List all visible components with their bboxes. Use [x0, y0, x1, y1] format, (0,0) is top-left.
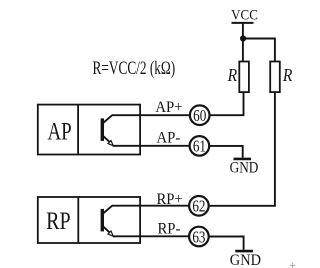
ground label GND (lower)	[230, 251, 261, 268]
pin 62 circle	[189, 196, 209, 216]
label RP+	[156, 190, 182, 208]
wire node to right resistor	[243, 39, 275, 62]
power label VCC	[231, 7, 258, 23]
svg-text:AP+: AP+	[155, 98, 182, 116]
wire AP- to pin 61	[113, 145, 189, 147]
transistor Q2 emitter arrowhead	[108, 231, 113, 236]
svg-text:VCC: VCC	[231, 7, 258, 23]
pin 63 circle	[189, 227, 209, 247]
ground bar (lower)	[235, 250, 253, 253]
svg-text:GND: GND	[230, 160, 259, 177]
wire pin 62 to right resistor	[210, 92, 275, 206]
svg-text:AP: AP	[47, 117, 71, 145]
label RP	[46, 207, 70, 235]
svg-text:GND: GND	[230, 251, 261, 268]
svg-text:RP: RP	[46, 207, 70, 235]
svg-text:R=VCC/2 (kΩ): R=VCC/2 (kΩ)	[93, 59, 176, 79]
transistor Q2 base bar	[101, 209, 104, 232]
svg-text:AP-: AP-	[157, 129, 181, 147]
label R right	[282, 65, 293, 85]
power symbol VCC bar	[232, 22, 254, 24]
label AP+	[155, 98, 182, 116]
block AP box	[38, 105, 140, 155]
svg-text:RP+: RP+	[156, 190, 182, 208]
ground bar (upper)	[234, 158, 252, 161]
node junction dot	[240, 35, 246, 41]
resistor R (right) body	[270, 62, 280, 93]
label AP-	[157, 129, 181, 147]
svg-text:R: R	[227, 65, 238, 85]
wire pin 60 to left resistor	[210, 92, 243, 115]
wire RP- to pin 63	[113, 235, 189, 237]
wire pin 63 to ground	[210, 237, 244, 250]
transistor Q1 collector and wire AP+	[104, 115, 190, 122]
svg-text:63: 63	[192, 228, 205, 247]
svg-text:R: R	[282, 65, 293, 85]
transistor Q2 emitter	[104, 227, 111, 233]
pin 61 circle	[190, 136, 210, 156]
label AP	[47, 117, 71, 145]
transistor Q1 emitter	[104, 136, 111, 142]
label R left	[227, 65, 238, 85]
block AP divider	[77, 105, 79, 155]
formula text R=VCC/2 (kOhm)	[93, 59, 176, 79]
wire pin 61 to ground	[210, 146, 243, 158]
block RP divider	[77, 197, 79, 243]
stray mark bottom right	[290, 263, 296, 268]
svg-text:61: 61	[193, 137, 206, 156]
pin 60 circle	[190, 105, 210, 125]
svg-text:62: 62	[192, 197, 205, 216]
label RP-	[157, 220, 180, 238]
wire VCC to node	[242, 23, 244, 62]
svg-text:60: 60	[193, 107, 206, 126]
resistor R (left) body	[239, 62, 249, 93]
transistor Q1 emitter arrowhead	[108, 141, 113, 146]
svg-text:RP-: RP-	[157, 220, 180, 238]
block RP box	[38, 197, 140, 243]
transistor Q2 collector and wire RP+	[104, 206, 189, 213]
transistor Q1 base bar	[101, 118, 104, 140]
ground label GND (upper)	[230, 160, 259, 177]
